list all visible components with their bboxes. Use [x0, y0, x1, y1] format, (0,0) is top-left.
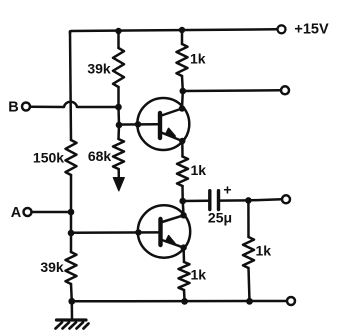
Q2 emitter blob: [180, 244, 186, 250]
node bottom middle junction: [181, 298, 188, 305]
svg-text:39k: 39k: [87, 61, 111, 77]
Q1 base blob: [135, 121, 141, 127]
ground: [56, 320, 89, 329]
Q2 emitter arrow: [166, 236, 175, 244]
transistor Q2: [71, 205, 190, 257]
Q2 base blob: [135, 229, 141, 235]
terminal output 2: [281, 86, 289, 94]
capacitor 25u: [210, 191, 219, 210]
svg-text:+15V: +15V: [294, 22, 329, 38]
svg-text:25μ: 25μ: [208, 210, 232, 226]
svg-text:150k: 150k: [33, 150, 64, 166]
node bottom-left junction: [68, 298, 75, 305]
Q2 base bar: [158, 219, 162, 245]
svg-text:1k: 1k: [256, 243, 272, 259]
Q1 collector lead: [160, 109, 182, 117]
terminal output 4: [287, 297, 295, 305]
resistor 1k (emitter Q2): [179, 262, 190, 290]
Q1 base bar: [158, 113, 162, 138]
terminal A: [24, 208, 32, 216]
Q2 collector blob: [180, 212, 186, 218]
node B junction: [115, 104, 122, 111]
resistor 1k (collector Q1): [177, 44, 188, 76]
wire cap node to Q2 collector: [181, 201, 184, 215]
wire node to capacitor: [183, 200, 208, 203]
wire 1k mid to cap node: [181, 186, 184, 201]
wire A to left column: [32, 211, 72, 214]
arrow to negative supply: [117, 169, 120, 178]
wire Q2 emitter to 1k bottom: [182, 248, 185, 262]
terminal B: [22, 103, 30, 111]
node Q1 base junction: [116, 122, 123, 129]
wire ground stub: [71, 301, 74, 318]
node A junction: [68, 209, 75, 216]
wire out node to 1k right: [247, 200, 250, 237]
svg-text:B: B: [8, 100, 18, 116]
wire collector node to Q1: [181, 91, 184, 109]
Q1 collector blob: [179, 105, 185, 111]
Q1 emitter arrow: [166, 128, 176, 136]
node top rail x=182: [179, 27, 185, 33]
resistor 39k (lower): [66, 252, 77, 284]
node collector Q1: [180, 88, 187, 95]
Q2 base wire: [71, 231, 158, 234]
svg-text:+: +: [223, 182, 231, 198]
wire Q1 emitter down to 1k mid: [181, 141, 184, 157]
node bottom right junction: [246, 298, 253, 305]
wire bottom rail: [72, 300, 287, 303]
Q2 emitter lead: [161, 240, 184, 248]
Q1 emitter blob: [179, 138, 185, 144]
resistor 1k (emitter Q1): [177, 157, 188, 187]
wire left column (to 39k bottom): [70, 233, 73, 252]
svg-text:68k: 68k: [88, 148, 112, 164]
wire 39k to bottom rail: [70, 284, 73, 301]
svg-text:1k: 1k: [191, 267, 207, 283]
Q2 collector lead: [161, 215, 184, 222]
node capacitor junction: [179, 198, 186, 205]
Q1 base wire: [119, 123, 158, 126]
wire to 68k: [117, 125, 120, 139]
svg-text:39k: 39k: [40, 259, 64, 275]
wire right column (rail to 1k top): [181, 30, 184, 44]
terminal output 3: [282, 195, 290, 203]
resistor 1k (right): [243, 237, 254, 268]
svg-text:A: A: [11, 205, 22, 221]
wire 1k right to bottom rail: [249, 268, 250, 301]
wire 1k bottom to rail: [183, 290, 186, 301]
svg-text:1k: 1k: [191, 162, 207, 178]
wire output 2: [183, 89, 281, 92]
svg-text:1k: 1k: [190, 51, 206, 67]
wire 1k to collector node: [181, 76, 184, 91]
wire top rail +15V: [70, 29, 277, 33]
wire left column (150k to node A): [70, 175, 73, 212]
node output junction: [245, 197, 252, 204]
wire B with hop over left column: [30, 102, 119, 107]
resistor 150k: [66, 140, 77, 175]
transistor Q1: [119, 98, 189, 150]
terminal +15V: [278, 25, 286, 33]
wire B node to Q1 base node: [117, 107, 120, 125]
resistor 68k: [113, 139, 124, 169]
wire capacitor to out node: [220, 199, 248, 202]
wire second column upper (rail to 39k): [117, 31, 120, 48]
wire left column upper (rail to 150k): [70, 32, 71, 141]
wire output 3: [248, 199, 282, 200]
Q1 emitter lead: [160, 132, 182, 141]
node top rail x=118.5: [115, 28, 121, 34]
node Q2 base junction: [68, 230, 75, 237]
wire left column (node A to Q2 base node): [70, 212, 73, 233]
wire 39k to B node: [117, 87, 120, 107]
resistor 39k (upper): [113, 48, 124, 87]
